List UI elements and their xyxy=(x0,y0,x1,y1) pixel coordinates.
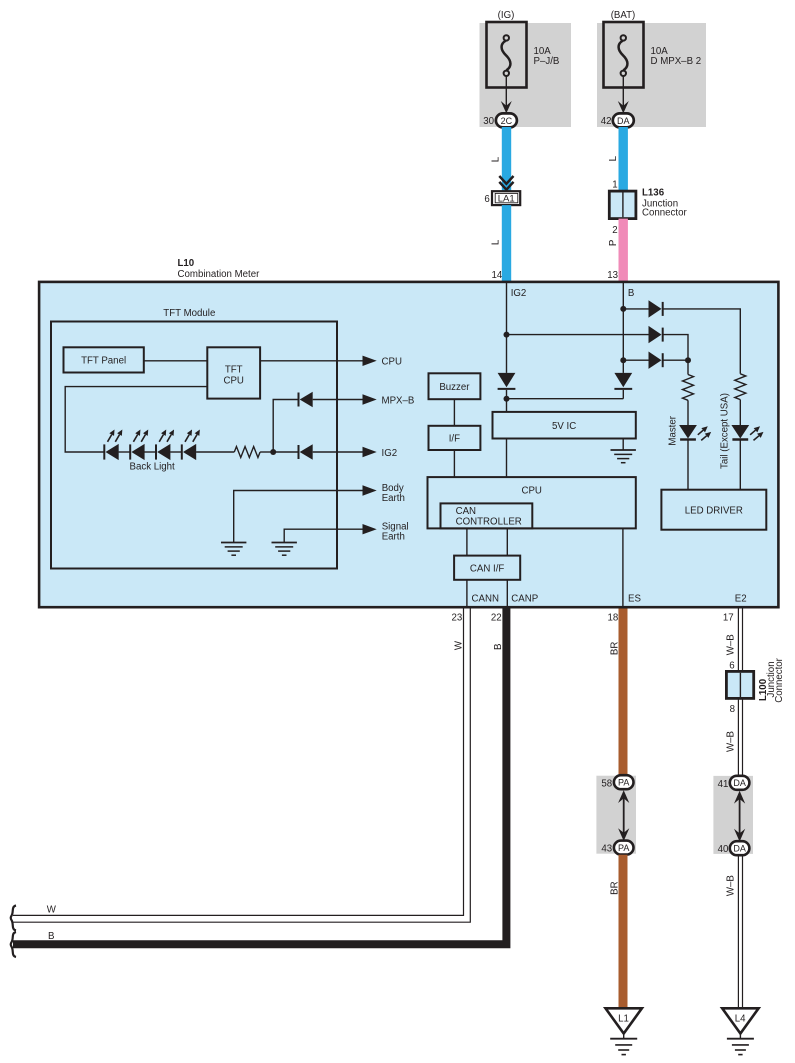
svg-text:43: 43 xyxy=(601,844,612,855)
wire W-B E2 top xyxy=(738,609,742,672)
svg-text:LED DRIVER: LED DRIVER xyxy=(685,506,743,517)
pin 1 xyxy=(612,180,617,191)
wire color label W-B mid xyxy=(725,731,736,752)
diode D5 to MPX-B xyxy=(299,392,313,407)
wire 5V IC to CPU xyxy=(506,439,508,478)
arrow pair between PA xyxy=(618,790,629,841)
wire buzzer to I/F xyxy=(453,399,455,426)
ground 5V IC xyxy=(611,439,636,463)
ground body earth xyxy=(221,543,246,556)
svg-text:P–J/B: P–J/B xyxy=(534,56,560,67)
LED D3 backlight xyxy=(156,430,174,461)
I/F box xyxy=(429,426,481,450)
svg-text:W–B: W–B xyxy=(725,731,736,752)
fuse block shading (BAT) xyxy=(597,23,706,127)
svg-text:CPU: CPU xyxy=(382,357,402,368)
TFT panel box xyxy=(64,347,144,372)
svg-text:L: L xyxy=(491,156,502,162)
pin 6 L100 xyxy=(729,660,734,671)
arrow into 2C xyxy=(501,101,512,113)
svg-text:1: 1 xyxy=(612,180,617,191)
wire B vertical xyxy=(622,283,624,373)
svg-text:BR: BR xyxy=(609,881,620,894)
LED D13 tail xyxy=(731,425,763,440)
svg-text:B: B xyxy=(493,643,504,649)
wire I/F to CPU xyxy=(453,450,455,477)
wire signal earth xyxy=(284,529,363,542)
svg-text:18: 18 xyxy=(608,612,619,623)
svg-text:P: P xyxy=(608,240,619,246)
wire W CANN white xyxy=(13,609,470,923)
wire L blue from LA1 to meter pin 14 xyxy=(502,205,511,281)
diode D7 row1 xyxy=(649,300,663,317)
combination meter L10 box xyxy=(39,282,778,607)
pin 23 xyxy=(452,612,463,623)
pin 41 xyxy=(718,779,729,790)
svg-text:8: 8 xyxy=(730,704,735,715)
svg-text:LA1: LA1 xyxy=(498,194,515,205)
svg-text:IG2: IG2 xyxy=(511,288,527,299)
node junction on B top xyxy=(620,306,626,312)
wire xyxy=(170,451,182,453)
diode D11 down on B xyxy=(614,373,632,399)
wire CANP to CAN I/F xyxy=(506,528,508,555)
chevron pair on wire xyxy=(499,176,513,190)
svg-text:5V IC: 5V IC xyxy=(552,421,576,432)
svg-text:CONTROLLER: CONTROLLER xyxy=(456,516,522,527)
svg-text:D MPX–B 2: D MPX–B 2 xyxy=(651,56,702,67)
wire CANP below xyxy=(506,580,508,607)
LED D12 master xyxy=(679,425,711,440)
wire BR brown ES upper xyxy=(619,609,628,776)
pin 6 xyxy=(484,194,489,205)
LED driver box xyxy=(661,490,766,530)
label L10 Combination Meter xyxy=(178,258,261,280)
wire xyxy=(145,451,157,453)
resistor R3 tail xyxy=(735,374,746,400)
label ES xyxy=(628,594,641,605)
wire master led to driver xyxy=(687,440,689,490)
wire CANN below xyxy=(466,580,468,607)
junction connector L136 xyxy=(609,191,636,219)
svg-text:40: 40 xyxy=(718,844,729,855)
svg-text:W–B: W–B xyxy=(725,634,736,655)
value label 10A P-J/B xyxy=(534,46,560,67)
wire P pink from L136 to meter pin 13 xyxy=(619,219,628,281)
pin 14 xyxy=(492,270,503,281)
arrow CPU xyxy=(363,356,402,368)
wire xyxy=(313,399,364,401)
wire BR brown ES lower xyxy=(619,855,628,1009)
CAN I/F box xyxy=(454,556,520,580)
svg-text:B: B xyxy=(48,931,54,942)
svg-text:17: 17 xyxy=(723,612,734,623)
wire color label L xyxy=(491,239,502,245)
CPU box xyxy=(428,477,636,528)
arrow Signal Earth xyxy=(363,522,409,543)
node junction 5v xyxy=(504,396,510,402)
LED D4 backlight xyxy=(182,430,200,461)
svg-text:Buzzer: Buzzer xyxy=(439,382,470,393)
wire xyxy=(196,451,234,453)
5V IC box xyxy=(493,412,636,439)
buzzer box xyxy=(429,373,481,399)
svg-text:23: 23 xyxy=(452,612,463,623)
wire L blue from DA to L136 pin 1 xyxy=(619,127,628,191)
svg-text:L1: L1 xyxy=(618,1014,629,1025)
svg-text:22: 22 xyxy=(491,612,502,623)
wire W-B E2 mid xyxy=(738,698,742,775)
label Tail (Except USA) xyxy=(720,393,731,469)
pin 43 xyxy=(601,844,612,855)
svg-text:DA: DA xyxy=(733,844,746,854)
connector PA block xyxy=(596,776,636,854)
wire W-B E2 bottom xyxy=(738,855,742,1008)
svg-text:CAN I/F: CAN I/F xyxy=(470,563,505,574)
CAN controller box xyxy=(441,503,533,528)
svg-text:B: B xyxy=(628,288,634,299)
svg-text:30: 30 xyxy=(483,116,494,127)
arrow into DA xyxy=(618,101,629,113)
wire L blue from 2C to LA1 xyxy=(502,127,511,191)
wire fuse IG to connector 2C xyxy=(505,76,507,109)
label W at left xyxy=(47,905,57,916)
svg-text:CANP: CANP xyxy=(511,594,538,605)
wire junction up to MPX-B diode xyxy=(273,400,298,453)
label Back Light xyxy=(130,462,176,473)
wire color label L xyxy=(491,156,502,162)
LED D2 backlight xyxy=(130,430,148,461)
arrow pair between DA xyxy=(734,791,745,842)
wire color label BR xyxy=(609,642,620,655)
connector PA top xyxy=(614,775,634,789)
svg-text:L: L xyxy=(491,239,502,245)
connector DA top xyxy=(730,776,750,790)
pin 13 xyxy=(607,270,618,281)
wire diode row 1 xyxy=(623,309,740,374)
svg-text:2C: 2C xyxy=(501,116,513,126)
wire diode row 2 xyxy=(507,335,689,361)
node IG2 pin label xyxy=(511,288,527,299)
wire color label B xyxy=(493,643,504,649)
continuation symbol B xyxy=(11,932,16,957)
wire body earth xyxy=(234,491,364,543)
svg-text:CPU: CPU xyxy=(521,485,541,496)
wire xyxy=(273,451,298,453)
pin 2 xyxy=(612,225,617,236)
svg-text:L4: L4 xyxy=(735,1014,746,1025)
svg-text:TFT Panel: TFT Panel xyxy=(81,356,126,367)
pin 8 L100 xyxy=(730,704,735,715)
connector PA bottom xyxy=(614,841,634,855)
svg-text:2: 2 xyxy=(612,225,617,236)
svg-text:TFT: TFT xyxy=(225,365,243,376)
svg-text:Back Light: Back Light xyxy=(130,462,176,473)
svg-text:W: W xyxy=(453,640,464,650)
svg-text:42: 42 xyxy=(601,116,612,127)
label L100 Junction Connector xyxy=(758,657,785,702)
node (BAT) label xyxy=(611,10,636,21)
arrow MPX-B xyxy=(363,394,415,406)
wire color label P xyxy=(608,240,619,246)
svg-text:L136: L136 xyxy=(642,188,665,199)
pin 17 xyxy=(723,612,734,623)
label CANN xyxy=(472,594,499,605)
diode D6 to IG2 xyxy=(299,444,313,459)
label L136 Junction Connector xyxy=(642,188,687,219)
svg-text:CPU: CPU xyxy=(223,376,243,387)
wire color label L xyxy=(608,155,619,161)
wire color label BR lower xyxy=(609,881,620,894)
diode D9 row3 xyxy=(649,352,663,369)
node (IG) label xyxy=(498,10,515,21)
pin 18 xyxy=(608,612,619,623)
fuse block shading (IG) xyxy=(480,23,572,127)
connector LA1 xyxy=(492,191,520,205)
svg-text:(IG): (IG) xyxy=(498,10,515,21)
diode D10 down on IG2 xyxy=(498,373,516,399)
label CANP xyxy=(511,594,538,605)
svg-text:6: 6 xyxy=(484,194,489,205)
label E2 xyxy=(735,594,747,605)
label B at left xyxy=(48,931,54,942)
value label 10A D MPX-B 2 xyxy=(651,46,702,67)
svg-text:Combination Meter: Combination Meter xyxy=(178,269,261,280)
wire xyxy=(260,451,273,453)
pin 22 xyxy=(491,612,502,623)
svg-text:PA: PA xyxy=(618,843,629,853)
svg-text:TFT Module: TFT Module xyxy=(163,308,215,319)
wire TFT CPU to CPU arrow xyxy=(260,360,363,362)
svg-text:13: 13 xyxy=(607,270,618,281)
pin 58 xyxy=(601,779,612,790)
pin 42 xyxy=(601,116,612,127)
svg-text:ES: ES xyxy=(628,594,641,605)
svg-text:Connector: Connector xyxy=(774,657,785,702)
ground signal earth xyxy=(272,543,297,556)
resistor R2 master xyxy=(683,375,694,401)
wire color label W xyxy=(453,640,464,650)
svg-text:MPX–B: MPX–B xyxy=(382,395,415,406)
continuation symbol W xyxy=(11,906,16,931)
TFT module box xyxy=(51,308,337,569)
svg-text:L10: L10 xyxy=(178,258,195,269)
connector 2C xyxy=(496,113,517,127)
wire xyxy=(739,400,741,425)
wire TFT panel to TFT CPU xyxy=(144,360,208,362)
connector DA xyxy=(613,113,634,127)
svg-text:W: W xyxy=(47,905,57,916)
wire to 5V IC xyxy=(507,399,624,412)
svg-text:CANN: CANN xyxy=(472,594,499,605)
wire diode row 3 xyxy=(623,360,688,374)
label Master xyxy=(668,415,679,445)
svg-text:6: 6 xyxy=(729,660,734,671)
svg-text:BR: BR xyxy=(609,642,620,655)
svg-text:L: L xyxy=(608,155,619,161)
pin 40 xyxy=(718,844,729,855)
svg-text:IG2: IG2 xyxy=(382,448,398,459)
wire B CANP black xyxy=(13,609,506,945)
svg-text:PA: PA xyxy=(618,778,629,788)
connector DA bottom xyxy=(730,841,750,855)
wire xyxy=(119,451,131,453)
TFT CPU box xyxy=(207,347,260,398)
svg-text:(BAT): (BAT) xyxy=(611,10,636,21)
svg-text:Connector: Connector xyxy=(642,208,687,219)
connector DA block xyxy=(713,776,753,854)
wire color label W-B lower xyxy=(725,875,736,896)
svg-text:Earth: Earth xyxy=(382,493,405,504)
node B pin label xyxy=(628,288,634,299)
LED D1 backlight xyxy=(104,430,122,461)
fuse F1 10A P-J/B xyxy=(487,22,527,88)
svg-text:W–B: W–B xyxy=(725,875,736,896)
svg-text:Master: Master xyxy=(668,415,679,445)
resistor R1 backlight xyxy=(234,447,260,458)
svg-text:58: 58 xyxy=(601,779,612,790)
svg-text:DA: DA xyxy=(733,778,746,788)
svg-text:DA: DA xyxy=(617,116,630,126)
ground point L1 xyxy=(606,1008,642,1054)
wire TFT CPU to backlight xyxy=(65,387,207,452)
arrow IG2 xyxy=(363,447,398,459)
svg-text:E2: E2 xyxy=(735,594,747,605)
svg-text:Tail (Except USA): Tail (Except USA) xyxy=(720,393,731,469)
node junction on IG2 xyxy=(504,332,510,338)
arrow Body Earth xyxy=(363,483,405,504)
fuse F2 10A D MPX-B 2 xyxy=(604,22,644,88)
svg-text:41: 41 xyxy=(718,779,729,790)
wire xyxy=(687,400,689,425)
ground point L4 xyxy=(722,1008,758,1054)
svg-text:Earth: Earth xyxy=(382,532,405,543)
junction connector L100 xyxy=(726,671,753,698)
wire IG2 vertical xyxy=(506,283,508,373)
wire ES below CPU xyxy=(622,528,624,606)
wire CANN to CAN I/F xyxy=(466,528,468,555)
svg-text:14: 14 xyxy=(492,270,503,281)
node backlight junction xyxy=(270,449,276,455)
wire xyxy=(313,451,364,453)
wire tail led to driver xyxy=(739,440,741,490)
diode D8 row2 xyxy=(649,326,663,343)
node junction row3 right xyxy=(685,357,691,363)
pin 30 xyxy=(483,116,494,127)
svg-text:I/F: I/F xyxy=(449,434,460,445)
wire color label W-B xyxy=(725,634,736,655)
node junction on B low xyxy=(620,357,626,363)
wire fuse BAT to connector DA xyxy=(622,76,624,109)
